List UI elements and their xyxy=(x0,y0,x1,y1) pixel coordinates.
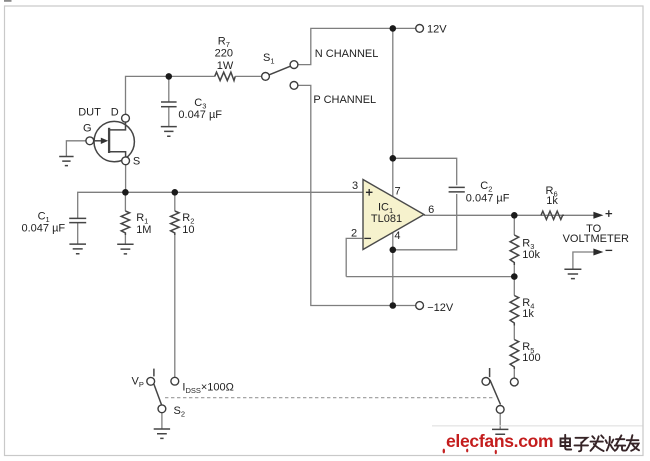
op-amp plus sign xyxy=(366,189,373,196)
wire: R2 bottom long vertical to S2 contact xyxy=(174,235,176,377)
svg-text:−12V: −12V xyxy=(427,302,454,314)
wire: feedback rail to R3-R4 node xyxy=(346,276,514,278)
op-amp minus sign xyxy=(364,237,371,239)
junction: pin4/-12V node xyxy=(390,302,397,309)
svg-text:VOLTMETER: VOLTMETER xyxy=(563,233,629,245)
char you xyxy=(626,435,639,451)
ground (gate) xyxy=(59,157,73,166)
svg-text:220: 220 xyxy=(215,48,233,60)
svg-text:D: D xyxy=(111,107,119,119)
ground (voltmeter minus) xyxy=(564,269,581,278)
svg-text:100: 100 xyxy=(522,352,540,364)
svg-text:G: G xyxy=(83,122,92,134)
S1 P contact xyxy=(290,82,298,90)
resistor R7 (220 1W) horizontal xyxy=(215,72,236,80)
S2 right pole common xyxy=(496,406,504,414)
wire: R1 top lead xyxy=(124,192,126,211)
svg-text:0.047 µF: 0.047 µF xyxy=(178,109,222,121)
wire: C2 bottom lead xyxy=(393,194,457,250)
corner artifact xyxy=(4,0,12,2)
wire: op-amp pin 7 xyxy=(392,158,394,197)
wire: gate lead to ground xyxy=(66,141,86,156)
JFET source lead xyxy=(109,152,126,158)
wire: C3 top lead from junction xyxy=(168,76,170,101)
junction: pin7/C2 node xyxy=(390,155,397,162)
svg-text:2: 2 xyxy=(351,228,357,240)
junction: feedback/R3/R4 node xyxy=(511,273,518,280)
resistor R4 (1k) vertical xyxy=(510,296,519,326)
junction: R2 node xyxy=(172,189,179,196)
char fa xyxy=(591,435,604,451)
S1 common contact xyxy=(262,73,270,81)
JFET channel bar xyxy=(108,128,110,153)
-12V terminal xyxy=(416,302,424,310)
capacitor C3 plates xyxy=(161,101,177,103)
svg-text:10: 10 xyxy=(182,224,194,236)
svg-text:1W: 1W xyxy=(217,60,234,72)
switch S2 right blade xyxy=(490,380,501,405)
svg-text:S: S xyxy=(133,155,140,167)
S1 N contact xyxy=(290,61,298,69)
S2 left pole IDSS contact xyxy=(171,377,179,385)
op-amp U1 triangle xyxy=(363,180,424,250)
resistor R2 (10) vertical xyxy=(171,211,179,235)
dashed gang line S2 xyxy=(165,397,494,399)
watermark strip top edge xyxy=(432,425,643,427)
terminal D xyxy=(122,114,130,122)
R5 bottom terminal xyxy=(510,378,518,386)
capacitor C1 plates xyxy=(69,217,86,219)
svg-text:0.047 µF: 0.047 µF xyxy=(22,223,66,235)
svg-text:1M: 1M xyxy=(136,224,151,236)
svg-text:DUT: DUT xyxy=(78,107,101,119)
wire: op-amp pin 2 stub to feedback xyxy=(346,238,363,276)
junction: pin4/C2 node xyxy=(390,247,397,254)
wire: R4 to R5 xyxy=(513,326,515,340)
char dian xyxy=(561,435,572,450)
terminal S xyxy=(122,157,130,165)
resistor R5 (100) vertical xyxy=(510,340,519,370)
S2 left pole VP contact xyxy=(147,377,155,385)
switch S2 right contact stub xyxy=(489,368,491,377)
terminal G xyxy=(86,137,94,145)
svg-text:12V: 12V xyxy=(427,23,447,35)
ground (C3) xyxy=(161,127,177,137)
svg-text:6: 6 xyxy=(428,204,434,216)
junction: source/R1 node xyxy=(122,189,129,196)
resistor R1 (1M) vertical xyxy=(121,211,129,235)
ground (S2 left) xyxy=(154,429,170,438)
svg-text:0.047 µF: 0.047 µF xyxy=(466,193,510,205)
JFET drain lead xyxy=(109,121,125,130)
switch S2 left contact stub xyxy=(153,369,155,377)
resistor R3 (10k) vertical xyxy=(510,235,519,265)
svg-text:10k: 10k xyxy=(522,249,540,261)
switch S2 left blade xyxy=(154,384,162,405)
wire: source vertical to input rail xyxy=(125,165,127,193)
wire: +12V vertical to pin 7 node xyxy=(392,28,394,158)
+12V terminal xyxy=(416,25,424,33)
junction: drain/C3/R7 node xyxy=(166,73,173,80)
wire: input rail C1 to op-amp pin 3 xyxy=(78,192,363,218)
ground (S2 right) xyxy=(492,429,508,438)
wire: C2 top lead xyxy=(393,158,457,185)
wire: R7 right to S1 common xyxy=(235,75,261,77)
wire: P contact down long vertical to -12V rail xyxy=(298,85,416,305)
watermark chinese characters 电子发烧友 xyxy=(561,435,640,452)
wire: R2 top lead xyxy=(174,192,176,211)
wire: R3 top lead xyxy=(513,215,515,235)
svg-text:P CHANNEL: P CHANNEL xyxy=(313,94,376,106)
wire: drain vertical from DUT D to R7 rail xyxy=(126,76,215,114)
svg-text:N CHANNEL: N CHANNEL xyxy=(315,48,379,60)
label minus sign output xyxy=(606,249,613,251)
wire: C3 bottom lead to ground xyxy=(168,107,170,126)
resistor R6 (1k) horizontal xyxy=(541,211,564,219)
wire: N contact to top rail corner xyxy=(298,28,416,64)
wire: S2 left pole common to ground xyxy=(161,413,163,429)
watermark drips xyxy=(443,449,445,454)
wire: C1 bottom lead xyxy=(77,223,79,244)
ground (C1) xyxy=(69,244,86,254)
DUT JFET body circle xyxy=(94,121,134,161)
wire: op-amp pin 4 to -12V rail xyxy=(392,232,394,305)
svg-text:1k: 1k xyxy=(522,308,534,320)
wire: R3 bottom lead xyxy=(513,265,515,277)
svg-text:elecfans.com: elecfans.com xyxy=(446,431,553,451)
char shao xyxy=(606,435,626,450)
arrowhead voltmeter minus xyxy=(593,249,603,256)
svg-text:1k: 1k xyxy=(546,195,558,207)
wire: S2 right pole common to ground xyxy=(499,413,501,429)
ground (R1) xyxy=(117,244,133,254)
wire: R4 leads xyxy=(513,277,515,296)
wire: voltmeter minus lead xyxy=(573,252,594,269)
svg-text:7: 7 xyxy=(394,185,400,197)
JFET gate arrow shaft xyxy=(94,140,103,142)
svg-text:4: 4 xyxy=(394,230,400,242)
switch S1 blade xyxy=(269,66,290,75)
svg-text:TL081: TL081 xyxy=(371,213,402,225)
svg-text:3: 3 xyxy=(352,180,358,192)
label plus sign output xyxy=(606,210,613,217)
wire: output rail pin 6 to arrow xyxy=(424,214,594,216)
char zi xyxy=(575,438,589,452)
wire: R1 bottom lead to ground xyxy=(124,235,126,244)
arrowhead voltmeter plus xyxy=(593,212,603,219)
wire: R5 bottom lead to terminal xyxy=(513,369,515,378)
S2 left pole common xyxy=(158,405,166,413)
S2 right pole left contact xyxy=(482,378,490,386)
capacitor C2 plates xyxy=(449,186,465,188)
JFET gate arrowhead xyxy=(101,138,108,144)
junction: top rail +12V node xyxy=(390,25,397,32)
junction: output/R3 node xyxy=(511,212,518,219)
